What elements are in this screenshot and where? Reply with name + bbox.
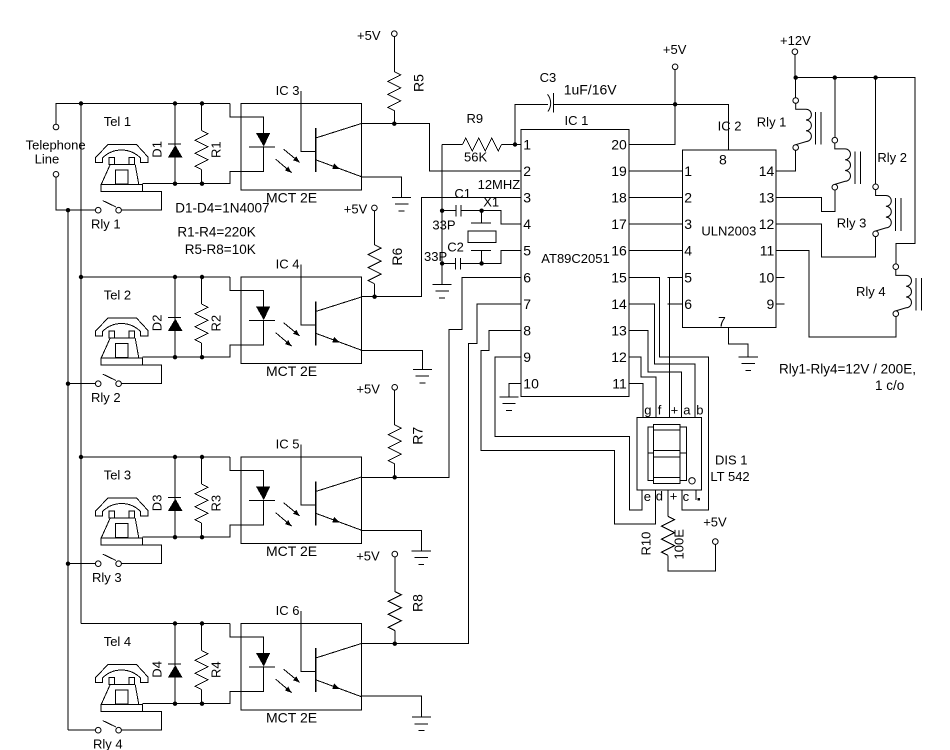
optocoupler U IC 4 (MCT 2E) box (241, 277, 362, 364)
label R10 and 100E (639, 529, 687, 560)
wire IC2 pin9 stub (776, 303, 784, 305)
svg-text:12: 12 (759, 216, 775, 232)
wire Rly4 to IC2 pin11 (776, 251, 896, 337)
label C3 1uF/16V (540, 70, 618, 98)
svg-text:MCT 2E: MCT 2E (266, 543, 317, 559)
svg-text:C3: C3 (540, 70, 557, 85)
labels display top pins g f + a b (644, 403, 703, 418)
LED inside IC 4 (241, 291, 275, 345)
svg-text:Rly1-Rly4=12V / 200E,: Rly1-Rly4=12V / 200E, (779, 362, 916, 377)
wire IC2 pin6 stub (667, 303, 682, 305)
svg-text:R3: R3 (209, 495, 224, 512)
wire IC2 pin10 stub (776, 276, 784, 278)
svg-text:Telephone: Telephone (26, 138, 86, 153)
svg-text:d: d (656, 489, 663, 504)
optocoupler U IC 5 (MCT 2E) box (241, 457, 362, 544)
wire IC1 pin8 to display segment d (481, 330, 655, 523)
svg-text:2: 2 (523, 163, 531, 179)
ground (IC 3 emitter) (392, 197, 411, 211)
node +5V terminal for R7 (356, 381, 397, 396)
capacitor C1 (33P) (442, 205, 482, 217)
label relay note (779, 362, 916, 394)
wire telephone line terminal 1 to top rail (56, 104, 230, 125)
svg-text:R1-R4=220K: R1-R4=220K (177, 225, 255, 240)
wire rail to Rly3 coil (875, 78, 877, 184)
wire Tel 4 phone to relay contact (121, 711, 161, 730)
svg-text:12: 12 (611, 349, 627, 365)
wire IC 6 collector to IC1 (362, 304, 521, 644)
label Rly 3 (837, 216, 867, 231)
label R6 (389, 247, 405, 265)
node +5V terminal for R8 (356, 549, 397, 564)
relay coil Rly 3 (873, 184, 901, 237)
LED inside IC 5 (241, 471, 275, 525)
svg-text:+: + (670, 489, 678, 504)
label R5 (410, 74, 426, 92)
svg-text:Rly 1: Rly 1 (757, 115, 787, 130)
label D1 (150, 141, 165, 158)
phototransistor inside IC 3 (316, 123, 362, 176)
svg-text:17: 17 (611, 216, 627, 232)
label MCT 2E (IC 4) (266, 363, 317, 379)
wire IC1 pin9 to display segment e (495, 357, 642, 510)
svg-text:ULN2003: ULN2003 (701, 224, 756, 239)
svg-text:5: 5 (684, 269, 692, 285)
svg-text:7: 7 (718, 314, 726, 330)
label ULN2003 (701, 224, 756, 239)
wire Tel 2 top jog into optocoupler anode (230, 277, 241, 291)
ground (IC 5 emitter) (412, 551, 431, 565)
svg-text:1uF/16V: 1uF/16V (564, 82, 618, 98)
junction dot collector node 1 (392, 122, 396, 126)
svg-text:20: 20 (611, 137, 627, 153)
phototransistor inside IC 4 (316, 297, 362, 350)
label Rly 2 (877, 150, 907, 165)
wire IC 6 emitter to ground (362, 696, 422, 717)
pin numbers IC1 right 20-11 (611, 137, 627, 392)
svg-text:R9: R9 (467, 111, 484, 126)
svg-text:R5: R5 (410, 74, 426, 92)
svg-text:R5-R8=10K: R5-R8=10K (185, 242, 256, 257)
label MCT 2E (IC 6) (266, 710, 317, 726)
ground (IC2 pin7) (739, 357, 758, 371)
svg-text:+5V: +5V (663, 42, 687, 57)
label Rly 4 (856, 284, 886, 299)
svg-text:D4: D4 (150, 661, 165, 678)
wire rail corner to Rly 4 contact (68, 729, 95, 731)
junction dots crystal nodes (440, 209, 484, 266)
telephone Tel 3 icon (96, 498, 148, 545)
label Tel 4 (104, 634, 131, 649)
wire Tel 1 phone to relay contact (121, 191, 161, 210)
junction dots Tel 3 channel (66, 455, 204, 566)
resistor R10 (100E) (662, 490, 716, 571)
junction dot pin1/R9/C3 (513, 142, 517, 146)
wire IC1 pin16 to IC2 pin4 (629, 250, 683, 252)
junction dots Tel 2 channel (66, 275, 204, 386)
svg-text:Tel 1: Tel 1 (104, 114, 131, 129)
svg-text:LT 542: LT 542 (710, 469, 749, 484)
op-amp IC 2 ULN2003 (driver) box (682, 150, 776, 328)
resistor R1 (220K) (195, 104, 208, 184)
telephone Tel 2 icon (96, 318, 148, 365)
wire +5V terminal to IC1 pin20 (629, 70, 675, 145)
label R7 (410, 427, 426, 445)
junction dots Tel 1 channel (66, 101, 204, 212)
svg-text:18: 18 (611, 190, 627, 206)
switch relay contact Rly 1 (95, 201, 121, 213)
label Tel 2 (104, 288, 131, 303)
wire RST node up to C3 (515, 104, 548, 144)
wire IC2 pin5 stub (667, 276, 682, 278)
wire rail to Rly 3 contact (68, 563, 95, 565)
switch relay contact Rly 4 (95, 721, 121, 733)
svg-text:Rly 3: Rly 3 (92, 570, 122, 585)
display decimal point circle (689, 478, 695, 484)
svg-text:15: 15 (611, 269, 627, 285)
diode D1 (168, 104, 183, 184)
LED inside IC 3 (241, 117, 275, 171)
resistor R9 (56K) (442, 138, 521, 151)
svg-text:Rly 3: Rly 3 (837, 216, 867, 231)
svg-text:14: 14 (611, 296, 627, 312)
wire Tel 4 channel top rail (rail corner) (81, 623, 230, 625)
svg-text:3: 3 (523, 190, 531, 206)
pin numbers IC1 left 1-10 (523, 137, 539, 392)
wire rail to Rly 2 contact (68, 383, 95, 385)
svg-text:+5V: +5V (356, 549, 380, 564)
label D4 (150, 661, 165, 678)
wire IC 4 collector to IC1 (362, 198, 521, 297)
label D2 (150, 315, 165, 332)
svg-text:Rly 4: Rly 4 (856, 284, 886, 299)
label R2 (209, 315, 224, 332)
svg-text:4: 4 (684, 243, 692, 259)
label Telephone Line (26, 138, 86, 167)
diode D3 (168, 457, 183, 537)
svg-text:D3: D3 (150, 495, 165, 512)
label R4 (209, 661, 224, 678)
pin numbers IC2 left 1-6 (684, 163, 692, 312)
svg-text:10: 10 (759, 269, 775, 285)
capacitor C2 (33P) (442, 258, 482, 270)
pin numbers IC2 right 14-9 (759, 163, 775, 312)
svg-text:9: 9 (523, 349, 531, 365)
wire Tel 3 top jog into optocoupler anode (230, 457, 241, 471)
switch relay contact Rly 3 (95, 554, 121, 566)
display DIS 1 LT 542 box (637, 417, 701, 490)
svg-text:19: 19 (611, 163, 627, 179)
wire telephone line terminal 2 down to relay contact row 1 (56, 177, 95, 210)
svg-text:D2: D2 (150, 315, 165, 332)
label MCT 2E (IC 5) (266, 543, 317, 559)
wire IC1 pin11 to display segment g (629, 383, 643, 417)
svg-text:R7: R7 (410, 427, 426, 445)
svg-text:+5V: +5V (357, 28, 381, 43)
svg-text:6: 6 (523, 269, 531, 285)
svg-text:MCT 2E: MCT 2E (266, 710, 317, 726)
svg-text:100E: 100E (672, 529, 687, 560)
wire IC 5 collector to IC1 (362, 277, 521, 477)
label Rly 4 (contact) (93, 737, 123, 750)
wire vertical rail (phone line A) x=81 (80, 104, 82, 624)
svg-text:+12V: +12V (780, 33, 811, 48)
wire Tel 3 channel bottom rail (143, 525, 241, 537)
node +5V terminal for R5 (357, 28, 397, 43)
wire IC 5 base tick (301, 445, 316, 505)
resistor R7 (10K) (388, 390, 401, 477)
wire Tel 3 phone to relay contact (121, 545, 161, 564)
LED light arrows IC 3 (276, 149, 300, 172)
label MCT 2E (IC 3) (266, 190, 317, 206)
svg-text:R10: R10 (639, 532, 654, 556)
label IC 5 (276, 437, 300, 452)
resistor R3 (220K) (195, 457, 208, 537)
label IC 2 (718, 118, 742, 133)
op-amp IC 1 AT89C2051 (microcontroller) box (521, 130, 629, 397)
svg-text:DIS 1: DIS 1 (715, 453, 748, 468)
label X1 12MHZ (478, 177, 521, 209)
svg-text:IC 2: IC 2 (718, 118, 742, 133)
svg-text:g: g (644, 403, 651, 418)
label R1 (209, 141, 224, 158)
svg-text:2: 2 (684, 190, 692, 206)
LED inside IC 6 (241, 637, 275, 691)
svg-text:Rly 2: Rly 2 (877, 150, 907, 165)
resistor R6 (10K) (368, 211, 381, 297)
wire Rly2 to IC2 pin13 (776, 190, 835, 211)
label Rly 2 (contact) (91, 390, 121, 405)
relay coil Rly 2 (832, 137, 860, 190)
ground (IC 6 emitter) (412, 717, 431, 731)
svg-text:Rly 1: Rly 1 (91, 217, 121, 232)
wire IC 3 collector to IC1 (362, 124, 521, 171)
wire Tel 4 top jog into optocoupler anode (230, 624, 241, 638)
label IC 4 (276, 257, 300, 272)
svg-text:33P: 33P (424, 249, 447, 264)
crystal X1 (12MHZ) (468, 211, 496, 264)
svg-text:R4: R4 (209, 661, 224, 678)
svg-text:12MHZ: 12MHZ (478, 177, 521, 192)
svg-text:R1: R1 (209, 141, 224, 158)
svg-text:R6: R6 (389, 247, 405, 265)
wire Tel 1 top jog into optocoupler anode (230, 104, 241, 118)
junction dots Tel 4 channel (173, 621, 204, 706)
label DIS 1 / LT 542 (710, 453, 749, 485)
wire Tel 3 channel top rail (81, 456, 230, 458)
svg-text:7: 7 (523, 296, 531, 312)
relay coil Rly 4 (893, 264, 921, 317)
svg-text:IC 4: IC 4 (276, 257, 300, 272)
svg-text:IC 5: IC 5 (276, 437, 300, 452)
svg-text:8: 8 (523, 322, 531, 338)
wire IC 4 emitter to ground (362, 351, 423, 370)
resistor R4 (220K) (195, 624, 208, 704)
wire IC1 pin19 to IC2 pin1 (629, 170, 683, 172)
wire RST ground rail (441, 145, 443, 285)
display decimal point pin stub (696, 490, 700, 501)
svg-text:Line: Line (35, 152, 60, 167)
label notes D1-D4 R1-R4 R5-R8 (175, 201, 269, 258)
wire Tel 2 phone to relay contact (121, 365, 161, 384)
wire C3 to +5V node and IC2 pin8 (553, 104, 728, 150)
wire IC1 pin12 to display segment f (629, 357, 656, 418)
label IC 6 (276, 603, 300, 618)
wire IC1 pin15 to display segment c (629, 277, 709, 510)
wire IC1 pin17 to IC2 pin3 (629, 223, 683, 225)
pin number IC2 pin8 top (719, 152, 727, 168)
wire IC 5 emitter to ground (362, 530, 422, 551)
svg-text:b: b (696, 403, 703, 418)
wire IC 4 base tick (301, 265, 316, 325)
svg-text:33P: 33P (432, 217, 455, 232)
junction dot collector node 2 (372, 295, 376, 299)
svg-text:10: 10 (523, 375, 539, 391)
svg-text:Tel 2: Tel 2 (104, 288, 131, 303)
wire IC 6 base tick (301, 611, 316, 671)
svg-text:e: e (644, 489, 651, 504)
svg-text:+5V: +5V (356, 381, 380, 396)
svg-text:13: 13 (759, 190, 775, 206)
resistor R2 (220K) (195, 277, 208, 357)
pin number IC2 pin7 bottom (718, 314, 726, 330)
svg-text:+: + (671, 403, 679, 418)
svg-text:c: c (683, 489, 690, 504)
wire IC 3 emitter to ground (362, 177, 402, 197)
label Rly 1 (757, 115, 787, 130)
svg-text:1 c/o: 1 c/o (875, 378, 904, 393)
svg-text:+5V: +5V (344, 202, 368, 217)
svg-text:Tel 4: Tel 4 (104, 634, 131, 649)
svg-text:D1-D4=1N4007: D1-D4=1N4007 (175, 201, 269, 216)
label Rly 3 (contact) (92, 570, 122, 585)
wire rail to Rly2 coil (834, 78, 836, 138)
svg-text:IC 3: IC 3 (276, 83, 300, 98)
optocoupler U IC 6 (MCT 2E) box (241, 624, 362, 711)
wire IC1 pin18 to IC2 pin2 (629, 197, 683, 199)
wire Rly1 to IC2 pin14 (776, 150, 796, 171)
svg-text:Rly 2: Rly 2 (91, 390, 121, 405)
resistor R8 (10K) (388, 557, 401, 644)
svg-text:16: 16 (611, 243, 627, 259)
svg-text:R8: R8 (410, 594, 426, 612)
wire IC 3 base tick (301, 91, 316, 151)
svg-text:C2: C2 (447, 239, 464, 254)
node +5V terminal (VCC) (663, 42, 687, 70)
wire Tel 2 channel top rail (81, 276, 230, 278)
relay coil Rly 1 (793, 78, 821, 151)
wire IC1 pin13 to display segment a (629, 330, 682, 417)
wire vertical rail (phone line B) x=68 (67, 210, 69, 730)
svg-text:C1: C1 (454, 186, 471, 201)
svg-text:IC 6: IC 6 (276, 603, 300, 618)
svg-text:MCT 2E: MCT 2E (266, 363, 317, 379)
svg-text:+5V: +5V (703, 515, 727, 530)
resistor R5 (10K) (388, 37, 401, 124)
wire Rly3 to IC2 pin12 (776, 224, 876, 257)
label Tel 1 (104, 114, 131, 129)
svg-text:3: 3 (684, 216, 692, 232)
svg-text:MCT 2E: MCT 2E (266, 190, 317, 206)
svg-text:Rly 4: Rly 4 (93, 737, 123, 750)
node +12V terminal (780, 33, 811, 55)
label D3 (150, 495, 165, 512)
wire +12V terminal to rail (794, 55, 796, 78)
labels display bottom pins e d + c . (644, 489, 690, 505)
svg-text:8: 8 (719, 152, 727, 168)
label Rly 1 (contact) (91, 217, 121, 232)
svg-text:4: 4 (523, 216, 531, 232)
node +5V terminal for R6 (344, 202, 377, 217)
node Telephone Line terminal 1 (53, 124, 59, 130)
wire IC1 pin10 to ground (509, 383, 521, 396)
wire crystal top to IC1 pin4 (482, 211, 521, 224)
junction dot +5V node (673, 102, 677, 106)
svg-text:5: 5 (523, 243, 531, 259)
ground (IC 4 emitter) (413, 369, 432, 383)
ground (crystal caps) (433, 284, 452, 298)
phototransistor inside IC 5 (316, 477, 362, 530)
wire IC1 pin14 to display segment b (629, 304, 695, 418)
diode D2 (168, 277, 183, 357)
svg-text:6: 6 (684, 296, 692, 312)
wire Tel 4 channel bottom rail (143, 691, 241, 703)
LED light arrows IC 6 (276, 669, 300, 692)
svg-text:13: 13 (611, 322, 627, 338)
wire Tel 1 channel bottom rail (143, 171, 241, 183)
svg-text:R2: R2 (209, 315, 224, 332)
label Tel 3 (104, 468, 131, 483)
svg-text:a: a (683, 403, 691, 418)
ground (IC1 pin10) (499, 397, 518, 411)
telephone Tel 1 icon (96, 145, 148, 192)
svg-text:D1: D1 (150, 141, 165, 158)
telephone Tel 4 icon (96, 665, 148, 712)
switch relay contact Rly 2 (95, 374, 121, 386)
wire display common anode to IC2 pin5 stub (668, 277, 670, 417)
junction dots +12V rail (794, 75, 878, 79)
svg-text:56K: 56K (464, 150, 487, 165)
display 7-segment digit (648, 425, 687, 484)
svg-text:1: 1 (523, 137, 531, 153)
node Telephone Line terminal 2 (53, 172, 59, 178)
label IC 3 (276, 83, 300, 98)
LED light arrows IC 4 (276, 323, 300, 346)
svg-text:AT89C2051: AT89C2051 (541, 251, 609, 266)
label C2 33P (424, 239, 464, 264)
wire +12V rail (796, 78, 915, 264)
node +5V terminal (display) (703, 515, 727, 545)
capacitor C3 (1uF/16V) (548, 93, 554, 112)
diode D4 (168, 624, 183, 704)
svg-text:11: 11 (760, 243, 775, 259)
label R9 and 56K (464, 111, 487, 165)
label C1 33P (432, 186, 471, 232)
wire crystal bottom to IC1 pin5 (482, 251, 521, 264)
junction dot collector node 3 (393, 475, 397, 479)
optocoupler U IC 3 (MCT 2E) box (241, 104, 362, 191)
svg-text:Tel 3: Tel 3 (104, 468, 131, 483)
svg-text:IC 1: IC 1 (565, 113, 589, 128)
wire Tel 2 channel bottom rail (143, 345, 241, 357)
svg-text:11: 11 (612, 375, 627, 391)
svg-text:X1: X1 (483, 194, 499, 209)
svg-text:1: 1 (684, 163, 692, 179)
label R8 (410, 594, 426, 612)
svg-text:9: 9 (767, 296, 775, 312)
svg-text:f: f (658, 403, 662, 418)
svg-text:14: 14 (759, 163, 775, 179)
